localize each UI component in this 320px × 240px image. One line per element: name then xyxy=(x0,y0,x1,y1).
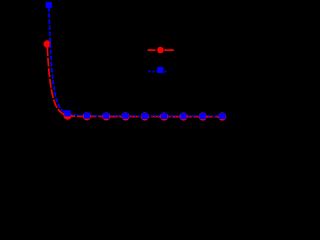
legend blue dotted line sample xyxy=(149,71,169,73)
red curve (dashed line series) xyxy=(47,47,226,117)
legend red dashed line sample xyxy=(148,49,174,51)
red circle markers xyxy=(44,40,227,120)
blue curve flat segment (dotted) xyxy=(68,113,227,116)
legend red circle marker xyxy=(157,47,164,54)
blue curve steep segment (dashed) xyxy=(49,7,68,113)
blue square markers xyxy=(46,2,226,119)
legend blue square marker xyxy=(157,67,163,73)
